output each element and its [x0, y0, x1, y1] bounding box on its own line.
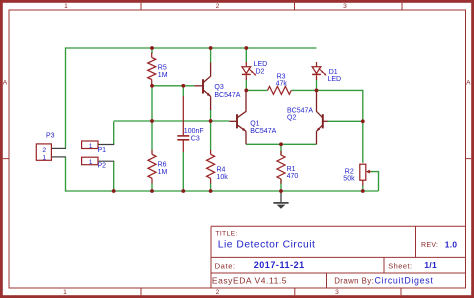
- svg-text:A: A: [466, 80, 471, 87]
- svg-text:47k: 47k: [276, 81, 288, 88]
- svg-text:R6: R6: [158, 162, 167, 169]
- svg-text:1M: 1M: [158, 72, 168, 79]
- svg-text:1: 1: [63, 289, 67, 296]
- svg-text:CircuitDigest: CircuitDigest: [375, 276, 434, 286]
- svg-text:Q3: Q3: [214, 84, 223, 91]
- svg-text:LED: LED: [328, 76, 342, 83]
- svg-text:Lie Detector Circuit: Lie Detector Circuit: [218, 240, 316, 251]
- svg-text:R5: R5: [158, 64, 167, 71]
- svg-text:Q1: Q1: [250, 120, 259, 127]
- svg-text:D2: D2: [256, 69, 265, 76]
- svg-text:2: 2: [42, 147, 46, 154]
- svg-text:1: 1: [89, 143, 93, 150]
- svg-text:2017-11-21: 2017-11-21: [254, 260, 305, 270]
- svg-text:C3: C3: [191, 135, 200, 142]
- svg-text:P2: P2: [98, 163, 107, 170]
- svg-text:Drawn By:: Drawn By:: [334, 277, 374, 286]
- svg-text:3: 3: [335, 289, 339, 296]
- svg-text:50k: 50k: [343, 175, 355, 182]
- svg-text:1/1: 1/1: [424, 260, 437, 270]
- svg-text:R2: R2: [345, 168, 354, 175]
- svg-text:Date:: Date:: [215, 261, 236, 270]
- svg-text:10k: 10k: [217, 174, 229, 181]
- svg-text:1: 1: [64, 3, 68, 10]
- svg-text:1M: 1M: [158, 169, 168, 176]
- svg-text:Sheet:: Sheet:: [388, 261, 412, 270]
- svg-text:BC547A: BC547A: [214, 92, 240, 99]
- svg-text:470: 470: [287, 173, 299, 180]
- svg-text:A: A: [3, 80, 8, 87]
- svg-text:P1: P1: [98, 147, 107, 154]
- svg-text:Q2: Q2: [287, 115, 296, 122]
- svg-text:R4: R4: [217, 167, 226, 174]
- svg-text:EasyEDA V4.11.5: EasyEDA V4.11.5: [212, 276, 287, 286]
- svg-text:1: 1: [42, 154, 46, 161]
- svg-text:1.0: 1.0: [445, 240, 458, 250]
- svg-text:3: 3: [343, 3, 347, 10]
- svg-text:P3: P3: [46, 132, 55, 139]
- svg-text:BC547A: BC547A: [287, 108, 313, 115]
- svg-text:TITLE:: TITLE:: [215, 231, 237, 238]
- svg-text:100nF: 100nF: [184, 128, 204, 135]
- svg-text:BC547A: BC547A: [250, 128, 276, 135]
- svg-text:1: 1: [89, 159, 93, 166]
- svg-text:LED: LED: [254, 61, 268, 68]
- svg-text:REV:: REV:: [421, 242, 438, 249]
- svg-text:D1: D1: [329, 69, 338, 76]
- svg-text:2: 2: [216, 3, 220, 10]
- svg-text:2: 2: [216, 289, 220, 296]
